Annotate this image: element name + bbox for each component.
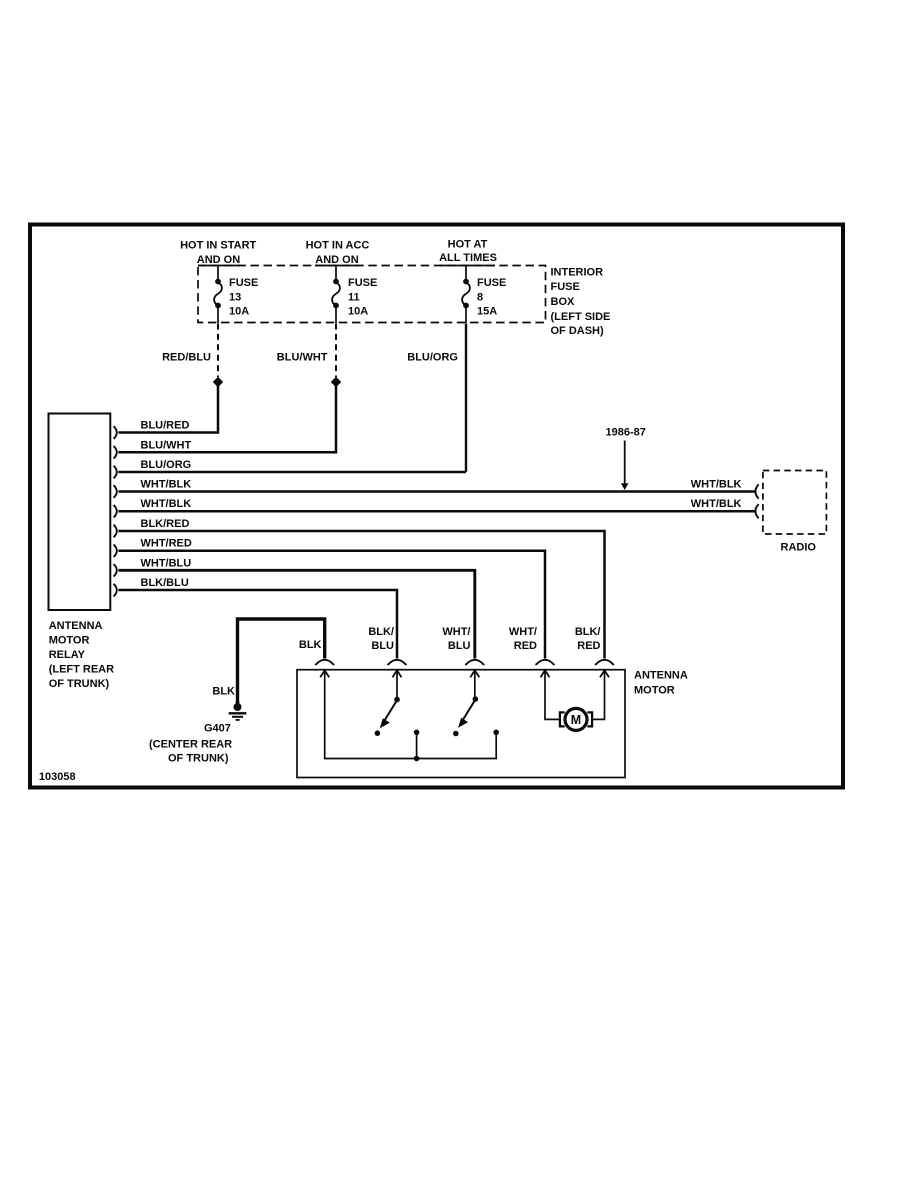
node bus contact 2 [493,730,499,736]
svg-text:MOTOR: MOTOR [49,635,90,647]
switch S2 [453,696,478,736]
splice on RED/BLU wire [213,377,223,387]
switch S1 [375,697,400,736]
svg-text:(LEFT SIDE: (LEFT SIDE [551,311,611,323]
svg-text:OF TRUNK): OF TRUNK) [49,678,110,690]
motor box female connectors (arcs above box edge) [315,660,614,665]
wire RED/BLU dashed drop from fuse F13 [217,324,219,378]
svg-text:AND ON: AND ON [315,254,358,266]
svg-text:FUSE: FUSE [477,277,506,289]
svg-text:OF DASH): OF DASH) [551,325,605,337]
wire pin1 to internal bus [325,670,497,758]
svg-text:ANTENNA: ANTENNA [634,670,688,682]
switch S2 wire from pin3 [474,670,476,698]
wire BLK antenna motor to ground [238,619,325,703]
svg-text:BLU/WHT: BLU/WHT [277,352,328,364]
label BLK/BLU at motor pin 2 [368,626,394,652]
wire BLU/RED relay to fuse F13 [118,385,218,432]
wire WHT/BLK relay to radio (lower) [118,510,754,513]
wire BLK/BLU relay to antenna motor [118,590,397,659]
svg-text:BLU/WHT: BLU/WHT [141,439,192,451]
svg-text:G407: G407 [204,723,231,735]
motor M [560,708,592,730]
label INTERIOR FUSE BOX [551,267,611,338]
wire BLU/ORG relay to fuse F8 [118,471,466,474]
label G407 (CENTER REAR OF TRUNK) [149,723,232,765]
wire WHT/BLK relay to radio (upper) [118,490,754,493]
svg-text:WHT/RED: WHT/RED [141,538,192,550]
svg-text:11: 11 [348,292,360,304]
svg-text:10A: 10A [348,306,368,318]
svg-text:WHT/: WHT/ [442,626,470,638]
fuse F11 10A [332,266,340,324]
1986-87 pointer arrow [621,441,629,491]
svg-text:WHT/BLK: WHT/BLK [691,498,742,510]
svg-text:BLU/ORG: BLU/ORG [141,459,192,471]
svg-text:RED: RED [577,640,600,652]
svg-text:RELAY: RELAY [49,649,86,661]
svg-text:WHT/BLK: WHT/BLK [141,498,192,510]
label WHT/BLU at motor pin 3 [442,626,470,652]
svg-text:BLU/ORG: BLU/ORG [407,352,458,364]
label ANTENNA MOTOR [634,670,688,697]
svg-text:WHT/BLK: WHT/BLK [691,479,742,491]
relay pin connectors (9 female arcs) [114,426,117,596]
svg-text:HOT IN START: HOT IN START [180,240,256,252]
svg-text:RADIO: RADIO [781,542,817,554]
junction on bus [414,756,420,762]
diagram outer frame [30,225,843,788]
svg-text:BOX: BOX [551,296,576,308]
svg-text:WHT/BLU: WHT/BLU [141,557,192,569]
svg-text:HOT AT: HOT AT [448,239,488,251]
bus contact stub 1 [416,735,418,759]
node bus contact 1 [414,730,420,736]
svg-text:8: 8 [477,292,483,304]
svg-text:ALL TIMES: ALL TIMES [439,252,497,264]
fuse F13 value label [229,277,258,318]
svg-text:(LEFT REAR: (LEFT REAR [49,664,114,676]
svg-text:(CENTER REAR: (CENTER REAR [149,739,232,751]
svg-text:INTERIOR: INTERIOR [551,267,604,279]
ground G407 [229,702,247,720]
svg-text:MOTOR: MOTOR [634,685,675,697]
svg-text:15A: 15A [477,306,497,318]
wire WHT/RED relay to antenna motor [118,551,545,659]
svg-text:BLK/BLU: BLK/BLU [141,577,189,589]
wire pin4 to motor left brush [545,670,560,719]
label HOT IN ACC AND ON [306,240,370,267]
svg-text:AND ON: AND ON [197,254,240,266]
svg-text:HOT IN ACC: HOT IN ACC [306,240,370,252]
label HOT IN START AND ON [180,240,256,267]
fuse box top edge solid segments under labels [198,265,495,267]
fuse F13 10A [214,266,222,324]
svg-text:BLK: BLK [212,686,235,698]
svg-text:OF TRUNK): OF TRUNK) [168,753,229,765]
svg-text:103058: 103058 [39,771,76,783]
antenna motor relay box [49,414,111,611]
svg-text:13: 13 [229,292,241,304]
svg-text:WHT/BLK: WHT/BLK [141,479,192,491]
svg-text:BLK/: BLK/ [575,626,601,638]
wire BLU/WHT dashed drop from fuse F11 [335,324,337,378]
svg-text:1986-87: 1986-87 [606,427,646,439]
svg-text:FUSE: FUSE [551,281,580,293]
svg-text:WHT/: WHT/ [509,626,537,638]
motor box male pin arrows (chevrons inside box edge) [320,670,609,677]
svg-text:BLU: BLU [371,640,394,652]
svg-text:10A: 10A [229,306,249,318]
svg-text:FUSE: FUSE [229,277,258,289]
interior fuse box (dashed) [198,266,546,323]
wire BLK/RED relay to antenna motor [118,531,604,659]
wire BLU/WHT relay to fuse F11 [118,385,336,452]
label BLK/RED at motor pin 5 [575,626,601,652]
radio box (dashed) [763,471,827,535]
switch S1 wire from pin2 [396,670,398,698]
svg-text:BLU: BLU [448,640,471,652]
label HOT AT ALL TIMES [439,239,497,265]
radio connector upper (female arc) [755,484,758,498]
svg-text:BLU/RED: BLU/RED [141,420,190,432]
label ANTENNA MOTOR RELAY [49,620,114,690]
wire pin5 to motor right brush [593,670,605,719]
svg-text:ANTENNA: ANTENNA [49,620,103,632]
svg-text:M: M [571,713,581,727]
svg-text:RED: RED [514,640,537,652]
fuse F8 15A [462,266,470,324]
splice on BLU/WHT wire [331,377,341,387]
label WHT/RED at motor pin 4 [509,626,537,652]
radio connector lower (female arc) [755,504,758,518]
wire BLU/ORG drop from fuse F8 [465,324,467,472]
fuse F8 value label [477,277,506,318]
svg-text:BLK/: BLK/ [368,626,394,638]
svg-text:BLK: BLK [299,639,322,651]
antenna motor box [297,670,625,778]
svg-text:FUSE: FUSE [348,277,377,289]
svg-text:BLK/RED: BLK/RED [141,518,190,530]
wire WHT/BLU relay to antenna motor [118,570,474,658]
fuse F11 value label [348,277,377,318]
svg-text:RED/BLU: RED/BLU [162,352,211,364]
